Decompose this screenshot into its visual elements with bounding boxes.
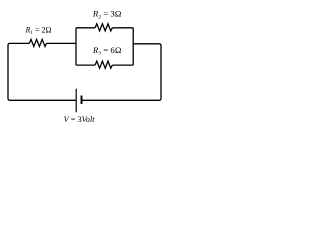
svg-text:R2 = 3Ω: R2 = 3Ω (92, 9, 122, 21)
wire: bottom branch left (76, 64, 95, 66)
battery V: long thin plate (positive) (75, 89, 77, 113)
resistor R1 (29, 39, 46, 46)
node: parallel box right edge (132, 28, 134, 65)
battery V: short thick plate (negative) (81, 96, 83, 105)
node: parallel box left edge (75, 28, 77, 65)
svg-text:V = 3Volt: V = 3Volt (64, 115, 96, 124)
wire: right connector + right side down to bottom (82, 44, 161, 101)
svg-text:R3 = 6Ω: R3 = 6Ω (92, 45, 122, 57)
wire: top branch left (76, 27, 95, 29)
wire: left side + top-left segment to R1 (8, 43, 76, 100)
resistor R2 (95, 24, 112, 31)
wire: from R1 to parallel box left node (47, 42, 77, 44)
wire: top branch right (112, 27, 133, 29)
resistor R3 (95, 61, 112, 68)
wire: bottom branch right (112, 64, 133, 66)
